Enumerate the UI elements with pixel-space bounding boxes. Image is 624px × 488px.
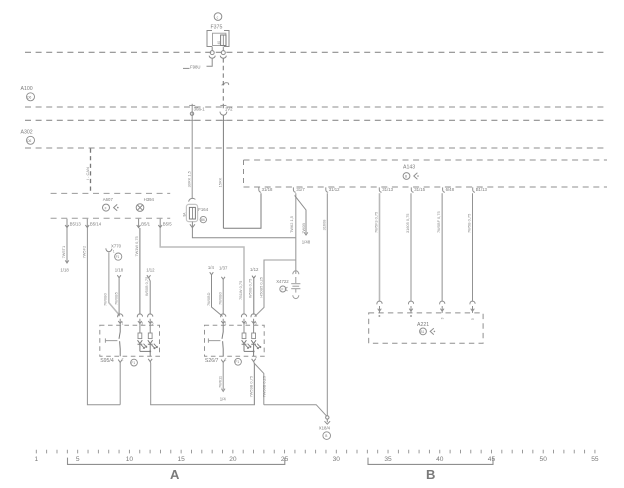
svg-text:7B1W 0,75: 7B1W 0,75 (238, 281, 243, 300)
svg-text:1/12: 1/12 (146, 267, 155, 272)
splice squiggle on wire 15 (222, 83, 229, 86)
hook pin3 S95/4 (137, 314, 142, 317)
hook pin1 S26/7 (221, 314, 226, 317)
hook pin5 S95/4 (148, 314, 153, 317)
wire 31/13 to A221 (light) (379, 193, 381, 301)
component A143 chevron (414, 173, 418, 179)
svg-text:B5/14: B5/14 (90, 221, 102, 226)
resistor branch4 S26/7 (243, 325, 245, 333)
svg-text:F98U: F98U (190, 65, 201, 70)
svg-text:F: F (282, 288, 284, 292)
svg-text:7W5B 0,75: 7W5B 0,75 (467, 214, 472, 233)
ruler numbers (34, 456, 598, 463)
component A221 chevron (430, 328, 434, 334)
fuse F164 element (189, 207, 195, 219)
note circle F1 left (131, 359, 138, 366)
feed 1/12 right arrow (252, 276, 256, 315)
svg-text:31/13: 31/13 (382, 187, 393, 192)
hook pin A221-2 (408, 301, 413, 313)
svg-text:7W5F2: 7W5F2 (81, 246, 86, 259)
feed 1/12 left arrow (147, 275, 151, 314)
terminal 30a circle (190, 112, 193, 115)
svg-text:F164: F164 (198, 207, 208, 212)
RAILS (25, 52, 607, 148)
F375 (183, 13, 229, 112)
svg-text:6/48: 6/48 (446, 187, 455, 192)
pin 31/15 (411, 187, 413, 192)
svg-text:7W59B 0,75: 7W59B 0,75 (248, 376, 253, 397)
svg-text:2: 2 (122, 357, 124, 361)
svg-text:B1: B1 (420, 330, 424, 334)
node F98U tick (183, 67, 190, 69)
svg-text:15: 15 (177, 456, 185, 463)
svg-text:31/15: 31/15 (414, 187, 425, 192)
wire 31/15 to A221 (410, 193, 412, 301)
svg-text:B5/5: B5/5 (163, 221, 172, 226)
feed 1/37 arrow (221, 277, 225, 315)
svg-text:H50B5 0,25: H50B5 0,25 (258, 277, 263, 298)
node A302 sheet circle (27, 136, 35, 144)
svg-text:1/4: 1/4 (220, 396, 227, 401)
svg-text:5: 5 (471, 318, 475, 320)
wire B5/5 to S26/7 (light) (160, 228, 244, 315)
svg-text:7W5BF 0,75: 7W5BF 0,75 (436, 211, 441, 233)
wire F375 left leg (211, 47, 213, 51)
svg-text:W50B 0,75: W50B 0,75 (247, 279, 252, 298)
svg-text:B: B (405, 175, 407, 179)
note circle c (214, 13, 222, 21)
wire F375 right leg (222, 47, 224, 51)
svg-text:1: 1 (225, 321, 227, 325)
RULER (34, 450, 598, 482)
ruler ticks (36, 450, 595, 454)
svg-text:F1: F1 (116, 255, 120, 259)
wire S95/4 LED ground (149, 362, 152, 405)
wire X4722 tee to S26/7 (255, 260, 296, 317)
wire S26/7 switch to 1/4 (221, 362, 225, 391)
svg-text:1/12: 1/12 (250, 267, 259, 272)
svg-text:S95/4: S95/4 (100, 358, 114, 364)
svg-text:H394: H394 (144, 197, 155, 202)
band SAM upper dashed line (51, 192, 171, 194)
fuse holder F375 inner outline (213, 33, 226, 45)
svg-text:B: B (426, 467, 435, 482)
wire 31/7 branch to 1/48 (295, 195, 308, 235)
fuse F164 sheet circle B6 (200, 216, 206, 222)
svg-text:7W5F3 0,75: 7W5F3 0,75 (373, 212, 378, 233)
break arc above F164 (189, 198, 196, 201)
svg-text:7: 7 (255, 357, 257, 361)
lamp H394 symbol (136, 204, 144, 212)
hook pin A221-5 (470, 301, 475, 313)
svg-text:1/48: 1/48 (302, 240, 311, 245)
connector A607 chevron (114, 204, 118, 210)
LABELS-LEFT (21, 86, 91, 193)
feed 1/4 arrow (210, 272, 223, 316)
pin 31/18 (259, 187, 261, 192)
wire 15 corner to pin 31/18 (223, 193, 261, 228)
wire S26/7 LED ground 0.75 (253, 362, 256, 405)
svg-text:31/7: 31/7 (296, 187, 305, 192)
A221 (369, 301, 483, 343)
svg-text:A143: A143 (403, 165, 415, 171)
terminal right on rail 30 (221, 51, 225, 55)
switch S95/4 box (100, 325, 160, 356)
svg-text:TW62 1,5: TW62 1,5 (289, 216, 294, 233)
svg-text:7W0BD: 7W0BD (206, 292, 211, 306)
svg-text:A100: A100 (21, 86, 33, 92)
wire 31/12 to ground point (326, 193, 328, 415)
connector X770 socket (106, 248, 112, 251)
fuse F375 element (221, 35, 226, 46)
pin7 out S95/4 (148, 359, 152, 362)
pin 31/12 (326, 187, 328, 192)
GROUND (150, 363, 330, 439)
svg-text:40: 40 (436, 456, 444, 463)
wire S95/4 switch return (119, 362, 121, 404)
svg-text:1: 1 (122, 321, 124, 325)
resistor branch5 S26/7 (253, 325, 255, 333)
pin B5/5 (158, 219, 162, 228)
svg-text:B5/1: B5/1 (141, 221, 150, 226)
svg-text:B: B (325, 434, 327, 438)
fuse holder F164 (186, 204, 197, 221)
svg-text:7W1W 0,75: 7W1W 0,75 (134, 236, 139, 256)
wire 30a vertical (191, 104, 193, 198)
ground bus A (150, 363, 254, 405)
svg-text:1: 1 (113, 249, 115, 253)
svg-text:5: 5 (152, 321, 154, 325)
svg-text:5: 5 (76, 456, 80, 463)
pin 31/13 (379, 187, 381, 192)
svg-text:F375: F375 (211, 25, 223, 31)
component A143 box bottom (244, 186, 608, 188)
feed 1/18 arrow (117, 275, 121, 316)
hook pin5 S26/7 (251, 314, 256, 317)
svg-text:20: 20 (229, 456, 237, 463)
component A143 box top (244, 159, 608, 161)
component A143 circle B (403, 173, 410, 180)
svg-text:30: 30 (333, 456, 341, 463)
junction LED common S95/4 (140, 350, 150, 352)
note circle F1 right (235, 358, 242, 365)
wire rail A100 lower (dashed) (25, 106, 607, 108)
CAN bus line I-CAN (dashed vertical) (90, 149, 92, 193)
svg-text:X770: X770 (111, 244, 122, 249)
svg-text:7W0B: 7W0B (301, 223, 306, 234)
svg-text:F1: F1 (131, 361, 135, 365)
svg-text:3: 3 (441, 317, 445, 319)
svg-text:A221: A221 (417, 322, 429, 328)
ground X18/4 sheet circle (323, 432, 331, 440)
svg-text:45: 45 (488, 456, 496, 463)
svg-text:7W0B0: 7W0B0 (218, 291, 223, 305)
LED branch3 S95/4 (138, 340, 143, 351)
tick 15 top (220, 104, 226, 106)
svg-text:1/18: 1/18 (60, 267, 69, 272)
pin7 out S26/7 (252, 359, 256, 362)
socket 1V2 (220, 112, 227, 116)
svg-text:1/4: 1/4 (208, 265, 215, 270)
hook pin A221-3 (440, 301, 445, 313)
wire S26/7 ground 0.25 diagonal (254, 363, 264, 405)
connector X4722 symbol (291, 271, 300, 299)
svg-text:7W50B 0,25: 7W50B 0,25 (261, 376, 266, 397)
svg-text:W50B 0,75: W50B 0,75 (144, 277, 149, 296)
wire rail A302 upper (dashed) (25, 119, 607, 121)
pin 31/7 (293, 187, 295, 192)
svg-text:S26/7: S26/7 (205, 358, 219, 364)
svg-text:31/12: 31/12 (329, 187, 340, 192)
wire B5/13 to 1/18 (65, 228, 69, 263)
svg-text:31/18: 31/18 (262, 187, 273, 192)
resistor branch5 S95/4 (149, 325, 151, 333)
pin B5/1 (137, 219, 141, 228)
pin B1/13 (473, 187, 475, 192)
BAND (51, 104, 234, 229)
wire B5/1 down (139, 228, 141, 315)
wire from X770 (light) (109, 252, 120, 315)
svg-text:B6: B6 (201, 218, 205, 222)
svg-text:2: 2 (225, 357, 227, 361)
wire F164 output to node 31/7 feed (192, 222, 295, 238)
tick 30a top (189, 104, 195, 106)
pin 6/48 (443, 187, 445, 192)
connector A607 circle F (103, 204, 110, 211)
wire rail 30 (dashed) (25, 51, 607, 53)
LED branch4 S26/7 (242, 340, 247, 351)
svg-text:15RK: 15RK (217, 177, 222, 187)
arrow below F164 (190, 224, 195, 227)
pin2 out S95/4 (118, 360, 122, 363)
svg-text:5: 5 (255, 321, 257, 325)
tick 30a on rail (189, 119, 195, 121)
fuse holder F375 outer brackets (207, 31, 229, 47)
svg-text:7W0B5: 7W0B5 (113, 292, 118, 305)
MIDWIRES (60, 193, 310, 405)
svg-text:A302: A302 (21, 130, 33, 136)
junction LED common S26/7 (244, 350, 254, 352)
svg-text:31605 0,75: 31605 0,75 (405, 214, 410, 233)
switch element S26/7 (222, 325, 223, 356)
svg-text:30RK 1,5: 30RK 1,5 (187, 171, 192, 187)
wire 31/7 down to X4722 (295, 193, 297, 274)
connector X4722 note circle F (280, 286, 286, 292)
svg-text:F1: F1 (235, 360, 239, 364)
svg-text:7W611: 7W611 (217, 376, 222, 388)
svg-text:F: F (105, 206, 107, 210)
resistor branch3 S95/4 (139, 325, 141, 333)
svg-text:31608: 31608 (321, 220, 326, 231)
svg-text:A: A (170, 467, 180, 482)
svg-text:X18/4: X18/4 (319, 425, 331, 430)
svg-text:X4722: X4722 (276, 279, 289, 284)
svg-text:D6: D6 (27, 139, 31, 143)
component A143 box left (243, 160, 245, 187)
ground bus B to X18/4 (264, 405, 327, 416)
svg-text:10: 10 (126, 456, 134, 463)
connector X770 note circle F1 (115, 253, 122, 260)
junction X18/4 circle (326, 416, 329, 419)
hook pin1 S95/4 (118, 314, 123, 317)
wire 15 feed (dashed) (222, 58, 224, 111)
wire rail A302 lower (dashed) (25, 147, 607, 149)
ground X18/4 stub arrow (325, 419, 331, 424)
svg-text:B5/13: B5/13 (70, 221, 82, 226)
band SAM lower dashed line (51, 217, 171, 219)
wire B5/14 down (87, 228, 120, 405)
terminal left on rail 30 (210, 51, 214, 55)
svg-text:1V2: 1V2 (225, 107, 233, 112)
svg-text:A607: A607 (103, 197, 114, 202)
switch S26/7 box (205, 325, 265, 356)
svg-text:1/18: 1/18 (115, 267, 124, 272)
svg-text:4: 4 (245, 321, 247, 325)
svg-text:7W0B0: 7W0B0 (102, 292, 107, 306)
LED branch5 S26/7 (251, 340, 256, 356)
tick 15 on rail (220, 119, 226, 121)
bracket A (68, 458, 285, 465)
svg-text:B1/13: B1/13 (476, 187, 488, 192)
A143 (244, 160, 608, 416)
svg-text:35: 35 (384, 456, 392, 463)
pin B5/13 (65, 219, 69, 228)
svg-text:1: 1 (34, 456, 38, 463)
svg-text:7W5T1: 7W5T1 (61, 246, 66, 259)
pin2 out S26/7 (221, 360, 225, 363)
svg-text:3: 3 (141, 321, 143, 325)
wire B1/13 to A221 (472, 193, 474, 301)
BOXES (100, 314, 267, 405)
component A221 circle B1 (420, 328, 427, 335)
svg-text:1/37: 1/37 (219, 266, 228, 271)
wire 6/48 to A221 (light) (441, 193, 443, 301)
svg-text:D6: D6 (27, 95, 31, 99)
svg-text:50: 50 (540, 456, 548, 463)
wire 15 vertical solid (222, 115, 224, 228)
bracket B (368, 458, 493, 465)
svg-text:30a-1: 30a-1 (194, 107, 206, 112)
svg-text:55: 55 (591, 456, 599, 463)
wire to F98U (207, 58, 213, 66)
switch element S95/4 (119, 325, 120, 356)
hook pin3 S26/7 (241, 314, 246, 317)
LED branch5 S95/4 (148, 340, 153, 356)
node A100 sheet circle (27, 93, 35, 101)
pin B5/14 (85, 219, 89, 228)
svg-text:I - CAN: I - CAN (85, 167, 90, 180)
hook pin A221-1 (377, 301, 382, 313)
svg-text:40: 40 (217, 41, 221, 45)
component A221 box (369, 313, 483, 343)
